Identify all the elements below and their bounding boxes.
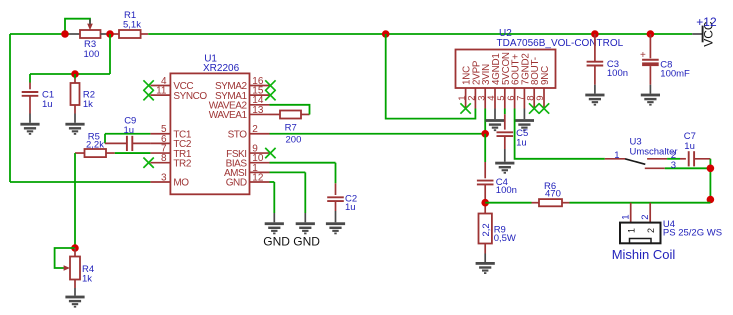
svg-text:1u: 1u	[684, 141, 695, 152]
svg-text:100mF: 100mF	[660, 68, 690, 79]
svg-text:3: 3	[161, 172, 167, 183]
svg-text:3: 3	[671, 160, 676, 171]
svg-text:2,2: 2,2	[481, 223, 492, 236]
svg-text:1k: 1k	[82, 274, 92, 285]
svg-text:1: 1	[626, 228, 636, 233]
svg-text:PS 25/2G WS: PS 25/2G WS	[663, 227, 722, 238]
svg-text:1: 1	[614, 150, 619, 161]
svg-text:1u: 1u	[124, 125, 135, 136]
svg-text:GND: GND	[263, 235, 290, 249]
svg-text:TR2: TR2	[173, 158, 191, 169]
svg-text:WAVEA1: WAVEA1	[209, 110, 248, 121]
svg-text:200: 200	[286, 135, 302, 146]
svg-text:1u: 1u	[42, 99, 53, 110]
svg-text:Umschalter: Umschalter	[630, 146, 678, 157]
svg-text:+: +	[640, 50, 646, 61]
svg-text:11: 11	[156, 86, 167, 97]
svg-text:+12: +12	[696, 15, 717, 29]
svg-text:STO: STO	[228, 129, 248, 140]
svg-text:1u: 1u	[345, 202, 356, 213]
svg-text:13: 13	[252, 105, 264, 116]
svg-text:Mishin Coil: Mishin Coil	[612, 247, 676, 262]
svg-text:MO: MO	[173, 178, 189, 189]
svg-text:GND: GND	[226, 178, 247, 189]
svg-text:12: 12	[252, 172, 264, 183]
svg-text:XR2206: XR2206	[203, 63, 240, 74]
svg-text:2,2k: 2,2k	[86, 140, 104, 151]
svg-text:9: 9	[535, 95, 546, 100]
svg-text:5,1k: 5,1k	[123, 20, 141, 31]
svg-text:0,5W: 0,5W	[494, 233, 516, 244]
svg-text:100: 100	[84, 49, 100, 60]
svg-text:2: 2	[252, 124, 258, 135]
svg-text:1u: 1u	[516, 137, 527, 148]
svg-text:R7: R7	[285, 122, 297, 133]
svg-text:100n: 100n	[607, 68, 628, 79]
svg-text:8: 8	[161, 153, 167, 164]
svg-text:SYNCO: SYNCO	[173, 91, 207, 102]
svg-text:TDA7056B_VOL-CONTROL: TDA7056B_VOL-CONTROL	[497, 38, 624, 49]
svg-text:GND: GND	[293, 235, 320, 249]
svg-text:470: 470	[545, 189, 561, 200]
svg-text:1k: 1k	[83, 99, 93, 110]
svg-text:100n: 100n	[496, 185, 517, 196]
svg-text:2: 2	[640, 215, 651, 220]
svg-text:1: 1	[621, 215, 632, 220]
svg-text:9NC: 9NC	[540, 66, 551, 85]
svg-text:2: 2	[646, 228, 656, 233]
